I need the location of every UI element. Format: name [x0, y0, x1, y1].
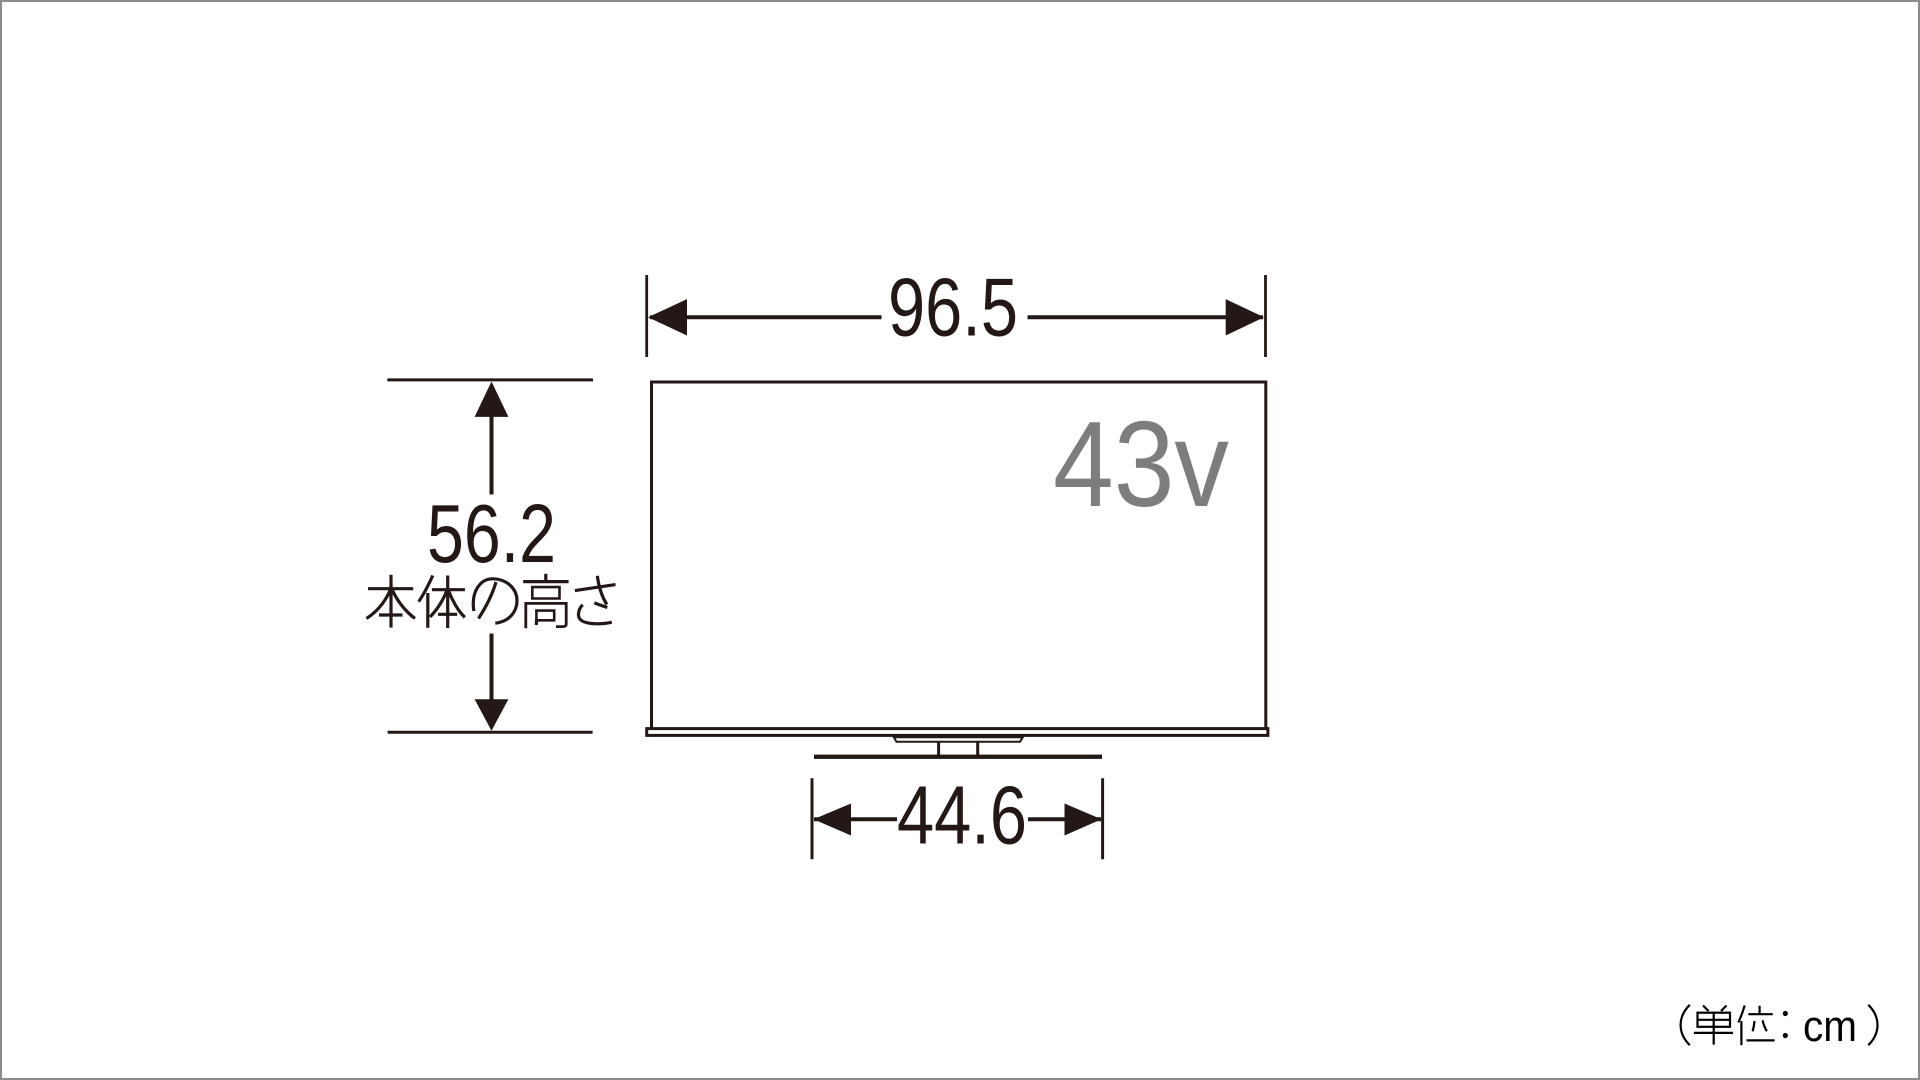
svg-text:44.6: 44.6: [897, 770, 1027, 862]
svg-text:cm: cm: [1803, 1002, 1857, 1051]
svg-text:43v: 43v: [1053, 396, 1229, 532]
svg-text:96.5: 96.5: [888, 262, 1018, 354]
svg-text:56.2: 56.2: [427, 488, 556, 580]
